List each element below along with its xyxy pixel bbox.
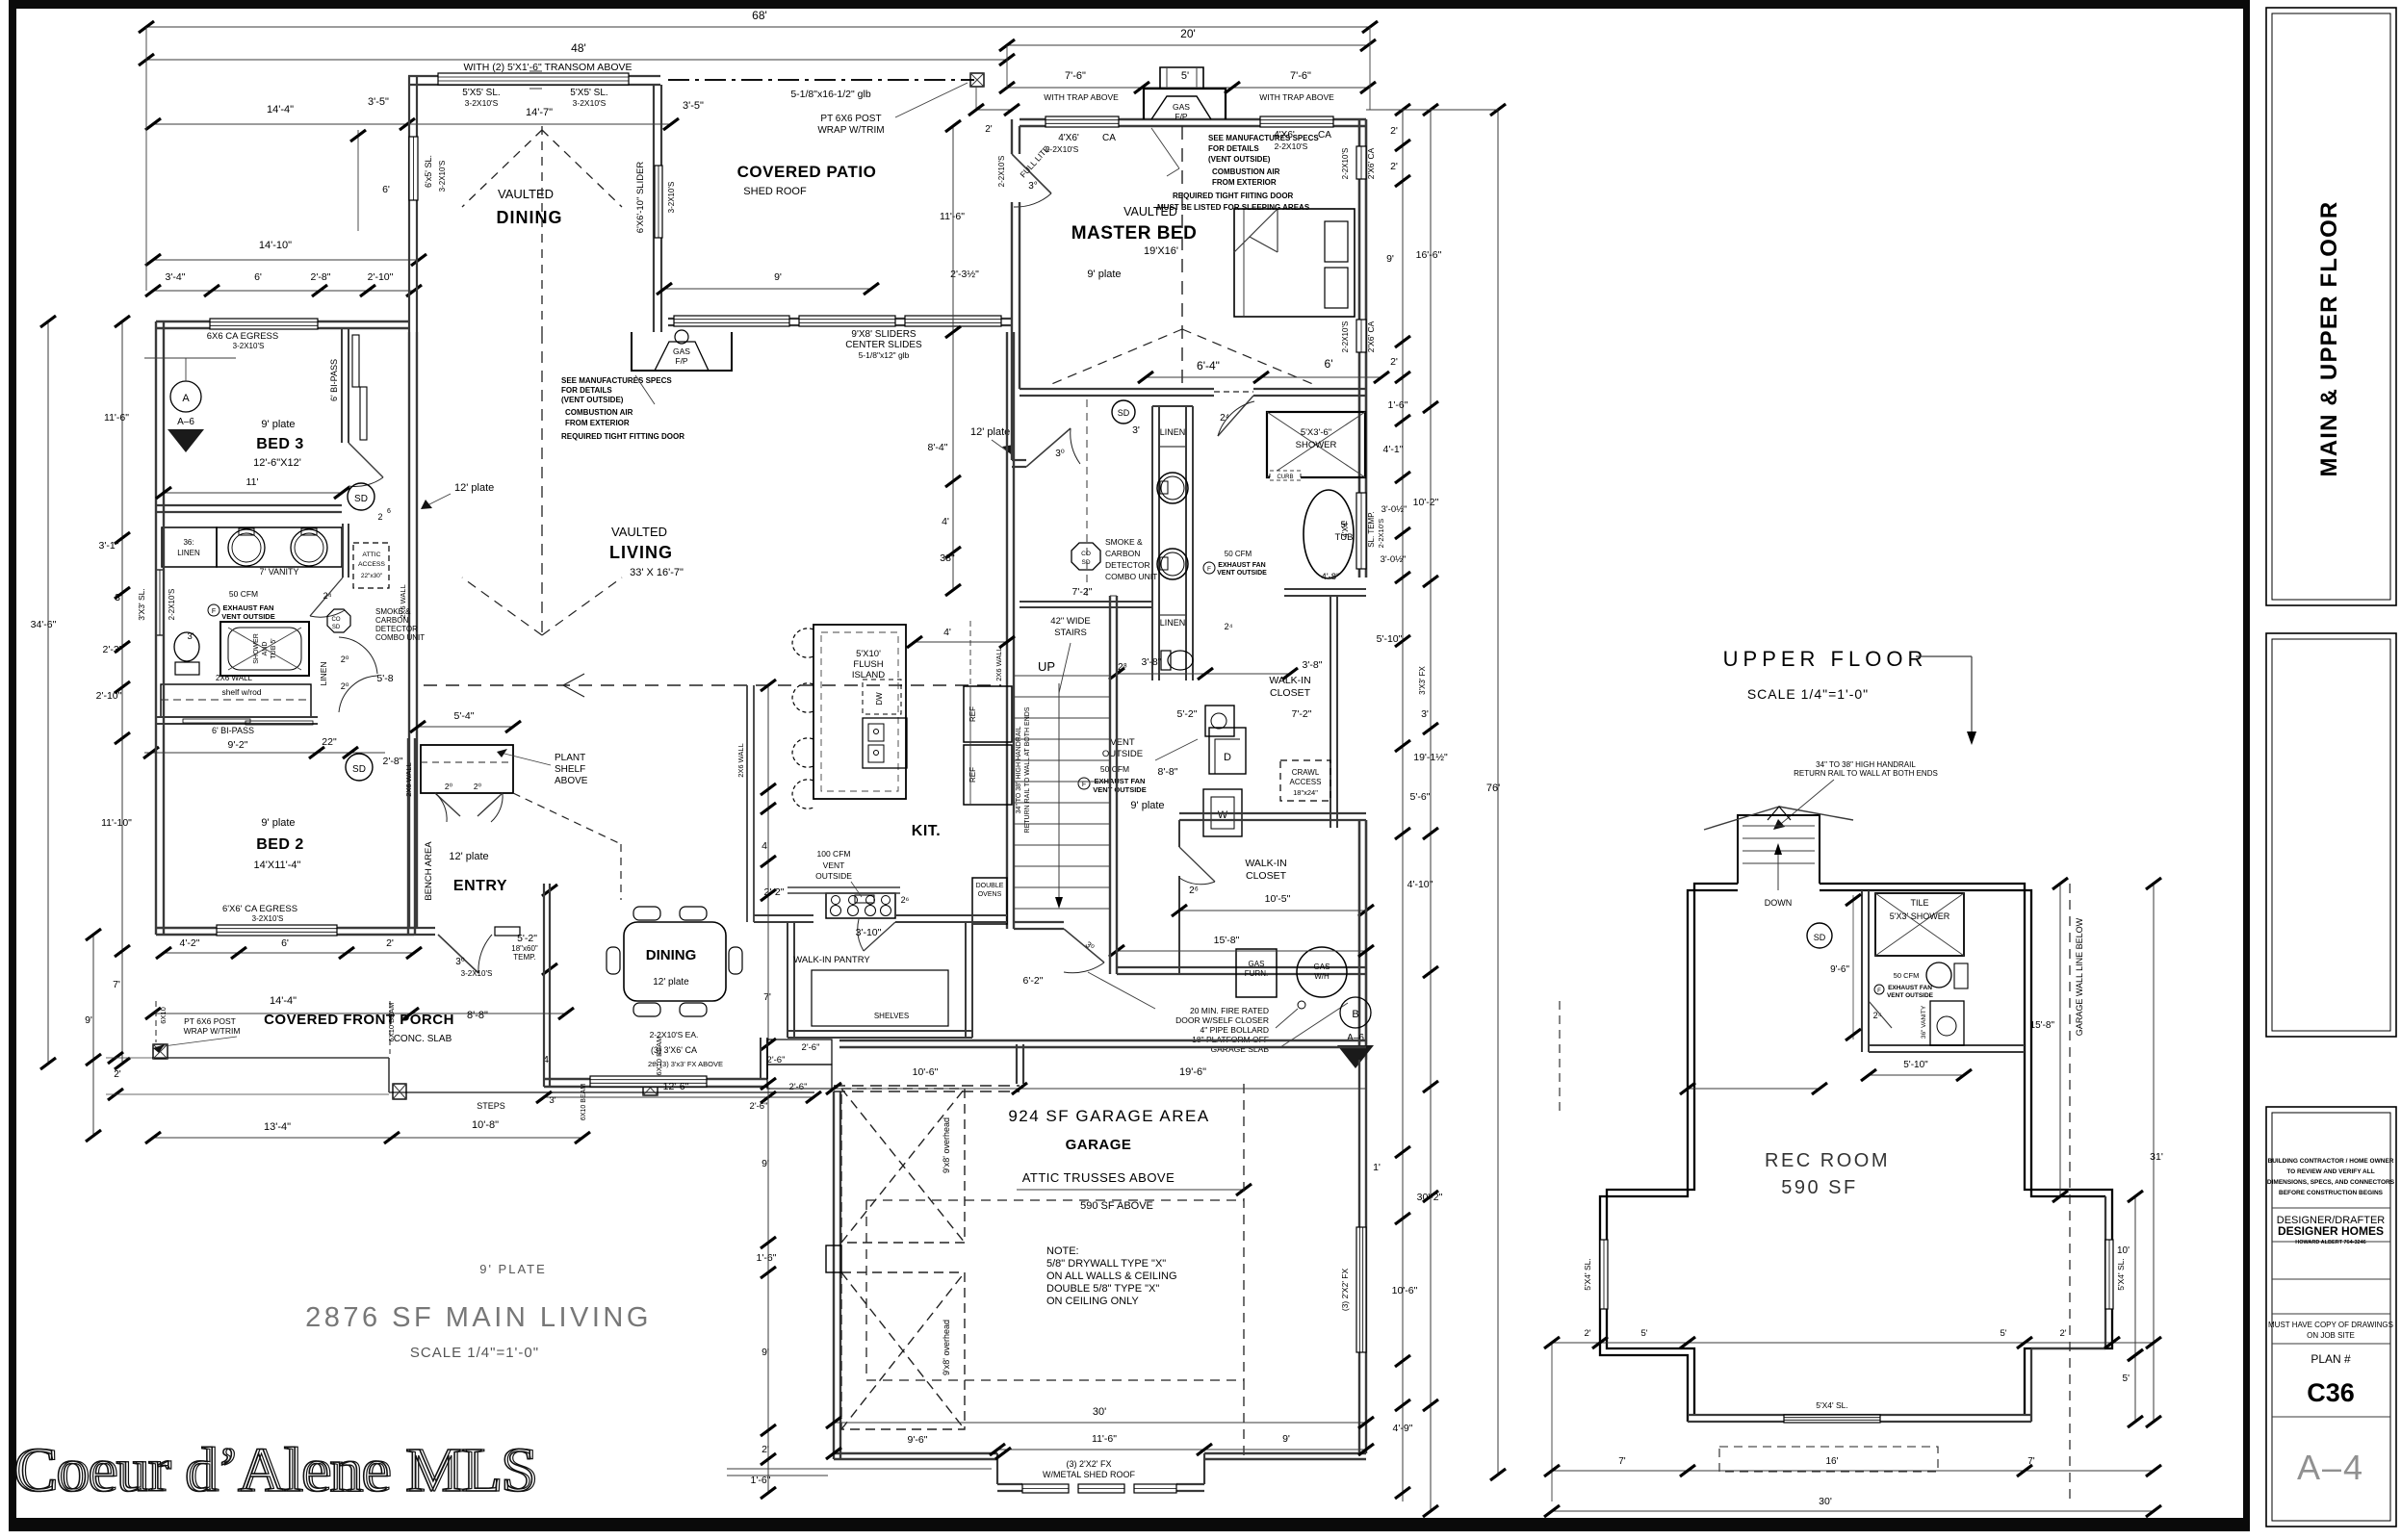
svg-text:6: 6 [387, 508, 391, 515]
svg-text:2X6 WALL: 2X6 WALL [216, 674, 252, 682]
svg-text:W/METAL SHED ROOF: W/METAL SHED ROOF [1043, 1470, 1136, 1479]
wall: house east x1412 y852-1101 [1358, 820, 1361, 1060]
svg-text:(3) 2'X2' FX: (3) 2'X2' FX [1340, 1268, 1350, 1311]
svg-text:3'-4": 3'-4" [166, 271, 186, 283]
sink: closet vanity [1205, 706, 1234, 736]
wall: hall south / garage north upper [1117, 966, 1366, 968]
dim: 11 ft bed3 [164, 492, 342, 494]
dashed: living ridge horizontal [424, 684, 1001, 686]
svg-text:2⁸: 2⁸ [1118, 662, 1127, 673]
dims nook south [544, 1096, 813, 1098]
svg-text:PLANT: PLANT [555, 753, 585, 763]
svg-text:7': 7' [113, 979, 120, 990]
svg-text:2': 2' [386, 937, 394, 949]
svg-text:2-2X10'S: 2-2X10'S [1046, 144, 1079, 154]
upper floor outline east [1820, 884, 2112, 1415]
upper windows 5x4 SL sides [1600, 1240, 1608, 1309]
svg-text:F: F [1877, 988, 1881, 994]
svg-text:OVENS: OVENS [978, 891, 1002, 898]
svg-text:36" VANITY: 36" VANITY [1921, 1005, 1927, 1039]
svg-text:GAS: GAS [1314, 962, 1330, 971]
svg-text:VENT OUTSIDE: VENT OUTSIDE [1217, 570, 1267, 577]
svg-text:REF: REF [968, 706, 977, 722]
svg-text:36:: 36: [183, 538, 194, 547]
svg-text:DOUBLE 5/8" TYPE "X": DOUBLE 5/8" TYPE "X" [1046, 1283, 1159, 1295]
svg-text:A–6: A–6 [1347, 1033, 1364, 1043]
wall: bed2 south with egress [156, 927, 414, 929]
wall: nook east riser [760, 1038, 762, 1079]
dim row bed2 south: 4-2 / 6 / 2 [164, 952, 414, 954]
svg-text:NOTE:: NOTE: [1046, 1245, 1079, 1257]
dining nook west wall [543, 884, 545, 1087]
svg-text:SEE MANUFACTURES SPECS: SEE MANUFACTURES SPECS [1208, 134, 1319, 142]
dim: 6-4 / 6 master south [1146, 376, 1381, 378]
svg-text:GARAGE SLAB: GARAGE SLAB [1211, 1044, 1270, 1054]
title block panel 2 border (blank) [2266, 633, 2396, 1037]
svg-text:CO: CO [1081, 551, 1091, 557]
closet: bed3 bi-pass [341, 328, 343, 443]
svg-text:WALK-IN PANTRY: WALK-IN PANTRY [793, 955, 870, 965]
svg-text:3'X3' FX: 3'X3' FX [1418, 665, 1427, 694]
svg-text:VENT: VENT [1110, 737, 1135, 748]
svg-text:2': 2' [762, 1444, 769, 1455]
svg-text:3'-5": 3'-5" [683, 100, 704, 112]
dim: 5-10 upper hall bottom [1688, 1088, 1820, 1090]
svg-text:4'-8": 4'-8" [1322, 572, 1340, 582]
svg-text:shelf w/rod: shelf w/rod [221, 687, 261, 697]
svg-text:1'-6": 1'-6" [1388, 399, 1408, 411]
wall: dining east [653, 85, 655, 332]
wall: below tub [1284, 588, 1366, 590]
svg-text:7'-6": 7'-6" [1065, 70, 1086, 82]
svg-text:3⁰: 3⁰ [455, 957, 465, 967]
svg-text:STAIRS: STAIRS [1054, 628, 1087, 638]
svg-text:6': 6' [382, 184, 390, 195]
svg-text:2'-3": 2'-3" [103, 644, 123, 655]
svg-text:BEFORE CONSTRUCTION BEGINS: BEFORE CONSTRUCTION BEGINS [2279, 1190, 2384, 1196]
wall: nook/pantry south with windows [544, 1078, 767, 1080]
svg-text:SMOKE &: SMOKE & [1105, 537, 1143, 547]
post: PT 6x6 at patio corner [970, 73, 984, 87]
svg-text:590 SF: 590 SF [1781, 1177, 1857, 1198]
svg-text:2'-6": 2'-6" [802, 1042, 820, 1053]
dim: patio east column 8-4 / 4 [952, 126, 954, 590]
svg-text:CONC. SLAB: CONC. SLAB [394, 1034, 452, 1044]
svg-text:OUTSIDE: OUTSIDE [815, 871, 852, 881]
island chairs [792, 629, 813, 657]
svg-text:ENTRY: ENTRY [453, 878, 507, 894]
upper floor leader arrow [1916, 655, 1972, 657]
svg-text:CA: CA [1102, 133, 1116, 143]
wall: garage west [833, 1091, 835, 1459]
svg-text:F: F [212, 608, 216, 615]
svg-text:9': 9' [774, 271, 782, 283]
svg-text:REQUIRED TIGHT FITTING DOOR: REQUIRED TIGHT FITTING DOOR [561, 432, 684, 441]
svg-text:9' PLATE: 9' PLATE [479, 1262, 547, 1276]
dashed: master ridge diagonals [1049, 329, 1182, 385]
island dishwasher DW [863, 680, 901, 714]
svg-text:6': 6' [1325, 357, 1333, 371]
svg-text:12' plate: 12' plate [970, 426, 1010, 438]
svg-text:2⁰: 2⁰ [341, 654, 349, 664]
svg-text:VAULTED: VAULTED [498, 187, 554, 201]
svg-text:DETECTOR: DETECTOR [375, 625, 418, 633]
wall: living west (2x6) [408, 332, 410, 929]
left dim column extension lines [145, 27, 147, 291]
svg-text:50 CFM: 50 CFM [1894, 971, 1920, 980]
svg-text:30': 30' [1093, 1406, 1106, 1418]
svg-text:2': 2' [1584, 1328, 1590, 1339]
section marker A / A-6 [170, 381, 201, 412]
svg-text:3-2X10'S: 3-2X10'S [461, 969, 493, 978]
wall: bed3 south [156, 504, 342, 506]
svg-text:2': 2' [2059, 1328, 2066, 1339]
svg-text:SL. TEMP.: SL. TEMP. [1367, 511, 1376, 548]
svg-text:3'-8": 3'-8" [1303, 659, 1323, 671]
svg-text:10'-2": 10'-2" [1413, 497, 1439, 508]
svg-text:WITH (2) 5'X1'-6" TRANSOM: WITH (2) 5'X1'-6" TRANSOM ABOVE [464, 62, 633, 73]
upper window 5x4 SL bottom [1784, 1415, 1880, 1423]
svg-text:GARAGE WALL LINE BELOW: GARAGE WALL LINE BELOW [2075, 917, 2084, 1036]
svg-text:6': 6' [254, 271, 262, 283]
svg-text:20': 20' [1180, 27, 1196, 40]
window: master bath east 4x4 SL TEMP [1356, 493, 1366, 569]
svg-text:16': 16' [1825, 1456, 1838, 1467]
svg-text:LINEN: LINEN [1160, 427, 1186, 437]
svg-text:5-1/8"x12" glb: 5-1/8"x12" glb [859, 350, 910, 360]
svg-text:4'-1": 4'-1" [1383, 444, 1404, 455]
svg-text:9' plate: 9' plate [1130, 800, 1164, 811]
svg-text:15'-8": 15'-8" [2030, 1020, 2055, 1031]
svg-text:11'-6": 11'-6" [104, 412, 129, 423]
sheet border frame [9, 0, 2250, 9]
svg-text:11'-6": 11'-6" [940, 211, 965, 222]
wall: vanity east stub [342, 524, 344, 577]
upper bath walls [1861, 890, 1863, 1052]
svg-text:7'-2": 7'-2" [1072, 586, 1093, 598]
svg-text:SD: SD [354, 494, 368, 504]
svg-text:1'-6": 1'-6" [757, 1252, 777, 1264]
dim row: 3-8 5-2 7-2 3 [1117, 673, 1290, 675]
svg-text:19'X16': 19'X16' [1144, 245, 1178, 257]
apron lines bottom left [727, 1468, 992, 1470]
svg-text:8'-8": 8'-8" [467, 1010, 488, 1021]
svg-text:5'X4' SL.: 5'X4' SL. [1816, 1400, 1848, 1410]
island 5x10 flush [813, 625, 906, 799]
svg-text:MASTER BED: MASTER BED [1071, 223, 1198, 244]
wall: closet south / bed2 north [156, 716, 318, 718]
svg-text:MUST BE: MUST BE [1157, 203, 1193, 212]
svg-text:SHED ROOF: SHED ROOF [743, 186, 807, 197]
dim: upper right 15-8 / 31 / 10 / 5 [2059, 884, 2061, 1196]
svg-text:2⁰: 2⁰ [474, 782, 482, 791]
svg-text:4'-9": 4'-9" [1393, 1423, 1413, 1434]
svg-text:9': 9' [762, 1158, 769, 1169]
svg-text:CRAWL: CRAWL [1292, 768, 1320, 777]
svg-text:68': 68' [752, 9, 767, 22]
svg-text:7': 7' [2027, 1456, 2035, 1467]
svg-text:SHELVES: SHELVES [874, 1012, 909, 1020]
wall: dining north with transom windows [408, 75, 660, 77]
dim: porch bottom 13-4 / 10-8 [153, 1137, 582, 1139]
svg-text:CARBON: CARBON [1105, 549, 1140, 558]
svg-text:4'-2": 4'-2" [180, 937, 200, 949]
svg-text:AND: AND [262, 642, 269, 656]
svg-text:EXHAUST FAN: EXHAUST FAN [1888, 985, 1932, 991]
svg-text:W/H: W/H [1314, 972, 1330, 981]
svg-text:LINEN: LINEN [319, 661, 328, 685]
svg-text:3': 3' [187, 631, 194, 642]
svg-text:WALK-IN: WALK-IN [1245, 858, 1286, 869]
svg-text:5': 5' [2000, 1328, 2006, 1339]
svg-text:RETURN RAIL TO WALL AT BO: RETURN RAIL TO WALL AT BOTH ENDS [1794, 769, 1938, 778]
svg-text:CARBON: CARBON [375, 616, 408, 625]
svg-text:FOR DETAILS: FOR DETAILS [561, 386, 612, 395]
svg-text:WITH TRAP ABOVE: WITH TRAP ABOVE [1044, 92, 1119, 102]
window: dining west 6x5 SL [409, 137, 418, 200]
svg-text:3-2X10'S: 3-2X10'S [573, 98, 607, 108]
wall: hall/landing [1014, 928, 1064, 930]
dim: 5-4 entry [418, 726, 513, 728]
svg-text:F/P: F/P [675, 356, 688, 366]
svg-text:3°: 3° [1028, 181, 1038, 192]
svg-text:SHELF: SHELF [555, 764, 585, 775]
svg-text:VENT OUTSIDE: VENT OUTSIDE [221, 612, 274, 621]
section marker B / A-6 [1340, 997, 1371, 1028]
svg-text:3'X3' SL.: 3'X3' SL. [137, 588, 146, 621]
svg-text:TILE: TILE [1910, 898, 1928, 908]
window: master north 4x6 CA right [1260, 116, 1333, 127]
svg-text:4': 4' [943, 627, 951, 638]
svg-text:5'X4' SL.: 5'X4' SL. [1583, 1258, 1592, 1291]
svg-text:ACCESS: ACCESS [358, 561, 385, 568]
svg-text:9': 9' [1386, 253, 1394, 265]
svg-text:SD: SD [352, 764, 366, 775]
dim: upper bottom rows [1552, 1342, 2154, 1344]
svg-text:UPPER FLOOR: UPPER FLOOR [1723, 647, 1928, 671]
svg-text:HOWARD ALBERT 764-3246: HOWARD ALBERT 764-3246 [2295, 1240, 2365, 1245]
svg-text:3-2X10'S: 3-2X10'S [233, 342, 265, 350]
dim: 9 ft patio line [664, 288, 871, 290]
svg-text:2⁰: 2⁰ [341, 681, 349, 691]
svg-text:COMBUSTION AIR: COMBUSTION AIR [1212, 167, 1280, 176]
door: bath 2-4 arc [310, 577, 343, 616]
dim column x1486 [1430, 110, 1432, 1511]
svg-text:6' BI-PASS: 6' BI-PASS [212, 726, 254, 735]
svg-text:Coeur d’Alene MLS: Coeur d’Alene MLS [16, 1435, 539, 1505]
svg-text:B: B [1352, 1009, 1358, 1020]
svg-text:BED 3: BED 3 [256, 436, 304, 452]
svg-text:2th (3) 3'x3' FX ABOVE: 2th (3) 3'x3' FX ABOVE [648, 1060, 723, 1068]
svg-text:OUTSIDE: OUTSIDE [1102, 749, 1143, 759]
dim: 14-10 line above bed3 [153, 259, 419, 261]
svg-text:COMBUSTION AIR: COMBUSTION AIR [565, 408, 633, 417]
crawl access [1280, 760, 1330, 801]
upper toilet [1926, 962, 1951, 988]
dashed: garage wall line below [2069, 884, 2071, 1501]
svg-text:SEE MANUFACTURES SPECS: SEE MANUFACTURES SPECS [561, 376, 672, 385]
svg-text:9'x8' overhead: 9'x8' overhead [942, 1117, 951, 1173]
svg-text:2-2X10'S: 2-2X10'S [1341, 148, 1350, 180]
svg-text:2'-8": 2'-8" [311, 271, 331, 283]
gas furnace [1236, 949, 1277, 997]
vanity: double sinks [217, 527, 342, 567]
svg-text:9': 9' [762, 1347, 769, 1358]
svg-text:EXHAUST FAN: EXHAUST FAN [1218, 562, 1265, 569]
svg-text:2-2X10'S EA.: 2-2X10'S EA. [650, 1030, 699, 1039]
dim: left 34-6 overall [47, 321, 49, 1064]
wall: patio south sliders [668, 318, 1012, 320]
svg-text:4'X6': 4'X6' [1058, 133, 1079, 143]
smoke/co combo left [327, 609, 350, 632]
svg-text:48': 48' [571, 41, 586, 55]
dashed: rec room outline over garage [866, 1199, 1244, 1201]
svg-text:5'X4' SL.: 5'X4' SL. [2116, 1258, 2126, 1291]
dim: 14-4 and 14-7 line [153, 123, 671, 125]
tub 5ft [1304, 490, 1354, 578]
toilet: bath left [174, 632, 199, 661]
svg-text:2-2X10'S: 2-2X10'S [1275, 141, 1308, 151]
bed: master bed furniture [1234, 209, 1355, 317]
dim: 68 ft overall width [146, 26, 1370, 28]
svg-text:4" PIPE BOLLARD: 4" PIPE BOLLARD [1200, 1025, 1269, 1035]
svg-text:DOWN: DOWN [1765, 898, 1793, 908]
door: master entry full lite [1012, 154, 1051, 193]
svg-text:CENTER SLIDES: CENTER SLIDES [845, 340, 922, 350]
svg-text:DETECTOR: DETECTOR [1105, 560, 1150, 570]
svg-text:5'X5' SL.: 5'X5' SL. [462, 88, 500, 98]
wall: master east [1358, 119, 1361, 577]
svg-text:2': 2' [1390, 161, 1398, 172]
svg-text:12'-6": 12'-6" [663, 1081, 689, 1092]
gas water heater [1297, 947, 1347, 997]
svg-text:ATTIC TRUSSES ABOVE: ATTIC TRUSSES ABOVE [1022, 1170, 1175, 1185]
wall: master south / bath north [1020, 388, 1214, 390]
svg-text:LINEN: LINEN [177, 549, 200, 557]
svg-text:14'-7": 14'-7" [526, 107, 553, 118]
svg-text:14'-4": 14'-4" [270, 995, 297, 1007]
porch posts [153, 1044, 168, 1059]
steps landing at garage side door [767, 1039, 832, 1065]
entry double doors [435, 793, 460, 816]
wall: bath south [1020, 601, 1152, 603]
svg-text:4': 4' [942, 516, 949, 527]
svg-text:DW: DW [875, 692, 884, 706]
svg-text:2⁶: 2⁶ [1189, 885, 1199, 896]
svg-text:9'-2": 9'-2" [228, 739, 248, 751]
svg-text:4'-10": 4'-10" [1407, 879, 1433, 890]
upper vanity sink [1930, 1001, 1964, 1045]
svg-text:BENCH AREA: BENCH AREA [424, 841, 434, 901]
dashed: entry plate boundary diagonal [513, 793, 621, 844]
svg-text:ACCESS: ACCESS [1290, 778, 1322, 786]
fireplace: gas F/P chimney bump [1144, 89, 1226, 119]
svg-text:34" TO 38" HIGH HANDRAIL: 34" TO 38" HIGH HANDRAIL [1016, 727, 1022, 814]
smoke detector master [1112, 400, 1135, 423]
svg-text:3-2X10'S: 3-2X10'S [252, 914, 284, 923]
svg-text:14'-4": 14'-4" [267, 104, 294, 115]
dim: 20 ft [1007, 44, 1368, 46]
svg-text:9'-6": 9'-6" [1830, 964, 1849, 975]
svg-text:2'X6' CA: 2'X6' CA [1366, 147, 1376, 179]
pillar between garage doors [826, 1245, 841, 1272]
wall: garage north [1016, 1044, 1018, 1084]
svg-text:ISLAND: ISLAND [852, 670, 885, 680]
door: bed3 [349, 443, 383, 477]
svg-text:2: 2 [377, 512, 382, 522]
svg-text:2'-10": 2'-10" [96, 690, 122, 702]
wall: kitchen west counter [746, 685, 748, 922]
svg-text:LINEN: LINEN [1160, 618, 1186, 628]
svg-text:STEPS: STEPS [477, 1101, 505, 1111]
window: west wall 3x3 SL [156, 570, 164, 635]
dim row above bed3: 3-4 / 6 / 2-8 / 2-10 [153, 290, 414, 292]
svg-text:5'-4": 5'-4" [454, 710, 475, 722]
door: front entry 3-0 [438, 935, 478, 973]
svg-text:CLOSET: CLOSET [1270, 687, 1311, 699]
svg-text:CURB: CURB [1277, 475, 1293, 480]
walk-in closet upper [1330, 596, 1331, 828]
svg-text:DOOR W/SELF CLOSER: DOOR W/SELF CLOSER [1175, 1015, 1269, 1025]
svg-text:50 CFM: 50 CFM [229, 589, 258, 599]
svg-text:(VENT OUTSIDE): (VENT OUTSIDE) [561, 396, 624, 404]
svg-text:COVERED FRONT PORCH: COVERED FRONT PORCH [264, 1012, 454, 1028]
svg-text:2-2X10'S: 2-2X10'S [1377, 519, 1385, 549]
svg-text:3'-10": 3'-10" [856, 927, 882, 938]
garage door X lower [841, 1272, 965, 1429]
title block panel 1 border [2266, 8, 2396, 605]
svg-text:PLAN #: PLAN # [2311, 1352, 2351, 1366]
svg-text:REC ROOM: REC ROOM [1765, 1150, 1890, 1171]
svg-text:9': 9' [85, 1014, 92, 1026]
svg-text:20 MIN. FIRE RATED: 20 MIN. FIRE RATED [1190, 1006, 1269, 1015]
svg-text:(3) 2'X2' FX: (3) 2'X2' FX [1067, 1459, 1112, 1469]
wall: bed2 west [155, 512, 157, 935]
garage door X upper [841, 1089, 965, 1243]
svg-text:34" TO 38" HIGH HANDRAIL: 34" TO 38" HIGH HANDRAIL [1816, 760, 1916, 769]
dining table with chairs [624, 922, 726, 1001]
upper shower tile 5x3 [1875, 893, 1964, 956]
svg-text:ON JOB SITE: ON JOB SITE [2307, 1331, 2355, 1340]
svg-text:5'-10": 5'-10" [1377, 633, 1403, 645]
svg-text:LISTED FOR SLEEPING AREAS: LISTED FOR SLEEPING AREAS [1194, 203, 1310, 212]
window: master east 2x6 CA lower [1356, 320, 1366, 352]
dashed: patio glb beam line [668, 79, 974, 81]
double ovens [972, 878, 1007, 924]
kitchen counters east: REF boxes [964, 686, 1012, 742]
svg-text:3': 3' [1132, 424, 1140, 436]
svg-text:3'-1": 3'-1" [99, 540, 119, 552]
svg-text:TUB 5': TUB 5' [271, 638, 277, 658]
dim: 15-8 hall [1117, 950, 1366, 952]
svg-text:GAS: GAS [1173, 102, 1190, 112]
fireplace: living gas F/P [632, 332, 732, 371]
wall: kitchen south [754, 914, 813, 916]
svg-text:TEMP.: TEMP. [513, 953, 535, 962]
svg-text:WITH TRAP ABOVE: WITH TRAP ABOVE [1259, 92, 1334, 102]
svg-text:BED 2: BED 2 [256, 836, 304, 853]
svg-text:7'-6": 7'-6" [1290, 70, 1311, 82]
svg-text:2'-3½": 2'-3½" [950, 269, 979, 280]
svg-text:WRAP W/TRIM: WRAP W/TRIM [817, 125, 884, 136]
wall: master west [1011, 119, 1013, 154]
svg-text:3'-0½": 3'-0½" [1381, 504, 1407, 515]
svg-text:REQUIRED TIGHT FIITING DOOR: REQUIRED TIGHT FIITING DOOR [1173, 192, 1294, 200]
svg-text:2': 2' [114, 1069, 121, 1080]
title block panel 3 border [2266, 1107, 2396, 1527]
svg-text:5'-10": 5'-10" [1903, 1060, 1928, 1070]
svg-text:GAS: GAS [1249, 960, 1265, 968]
